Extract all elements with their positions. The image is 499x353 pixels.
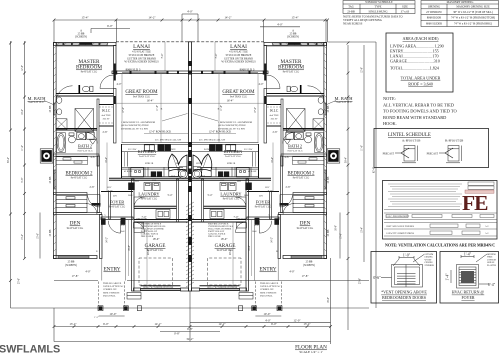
pantry curved wing [168,154,187,172]
svg-text:203 SF: 203 SF [103,118,111,121]
great room left wall [114,89,117,144]
svg-text:SINGLE-HUNG: SINGLE-HUNG [369,10,388,13]
misc small dims [90,54,291,256]
svg-text:11'-0": 11'-0" [21,145,24,151]
kitchen row block labels [65,130,315,288]
svg-text:GARAGE, TAPE &: GARAGE, TAPE & [141,233,159,236]
svg-text:11'-8": 11'-8" [220,105,223,111]
svg-text:W.I.C: W.I.C [270,109,279,113]
svg-text:2'-8": 2'-8" [286,186,291,189]
svg-text:9x6 FLAT CLG: 9x6 FLAT CLG [77,150,93,153]
svg-text:SWFLAMLS: SWFLAMLS [0,344,60,353]
svg-text:25'-6": 25'-6" [18,278,21,284]
svg-text:12'-0" ROW BLOCK: 12'-0" ROW BLOCK [149,130,171,133]
svg-text:2'-8": 2'-8" [273,131,278,134]
svg-text:CEILING: CEILING [425,257,434,259]
svg-text:LAUNDRY: LAUNDRY [138,192,160,197]
svg-text:12'-0": 12'-0" [293,318,301,322]
masonry opening table [421,1,499,27]
slider opening in great room wall [122,71,168,73]
lanai note lines [124,51,256,72]
svg-text:WALL STUD AT ENTIRE: WALL STUD AT ENTIRE [208,227,232,230]
svg-text:WIDE: WIDE [487,257,493,259]
svg-text:BATH 2: BATH 2 [288,144,302,149]
svg-text:GYPSUM BOARD ON ALL: GYPSUM BOARD ON ALL [208,225,234,228]
svg-text:4'-0": 4'-0" [259,83,264,86]
FE cert small boxes right [465,182,494,193]
svg-text:6'-0": 6'-0" [103,322,110,326]
water heater pad outside [40,149,53,163]
hall/den right wall [98,156,100,213]
svg-text:13'-4": 13'-4" [69,322,77,326]
svg-text:AREA (EACH SIDE): AREA (EACH SIDE) [403,36,440,41]
svg-text:W/D: W/D [152,180,157,182]
wic shelves [99,107,114,123]
bedroom2 door arc [88,195,101,208]
svg-text:RANGE: RANGE [204,148,212,151]
svg-text:FOYER: FOYER [461,295,474,300]
dark chunks on master right wall [114,64,116,74]
svg-text:WALL STUD AT ENTIRE: WALL STUD AT ENTIRE [141,227,165,230]
laundry shelf box [156,210,170,219]
svg-text:9x4 FLAT CLG: 9x4 FLAT CLG [297,227,314,230]
svg-text:W/ EXTRA SCREEN DOWELS: W/ EXTRA SCREEN DOWELS [124,61,159,64]
svg-text:KITCHEN: KITCHEN [224,149,242,154]
svg-text:50'-4": 50'-4" [345,157,348,163]
dimension labels bottom [69,312,311,341]
svg-text:0'-4": 0'-4" [488,283,496,287]
right unit (mirror) [188,42,339,311]
svg-text:25'-6": 25'-6" [359,278,362,284]
counter left leg [122,152,128,167]
left exterior wall [54,43,57,259]
svg-text:10'-0": 10'-0" [263,312,271,316]
svg-text:10'-0": 10'-0" [21,109,24,115]
svg-text:12'-8": 12'-8" [361,67,364,73]
svg-text:17'-0": 17'-0" [254,107,257,113]
svg-text:9x4 FLAT CLG: 9x4 FLAT CLG [223,198,240,201]
svg-text:GARAGE........................: GARAGE..........................310 [390,59,440,64]
svg-text:SIZE: SIZE [402,5,408,8]
svg-text:34'-2": 34'-2" [186,337,194,341]
bath2 top wall [56,128,97,130]
kitchen left edge [121,144,123,178]
svg-text:4'-0": 4'-0" [289,271,294,274]
bath2 bottom wall [54,154,100,156]
svg-text:CAPACITY COMPUTATIONS: CAPACITY COMPUTATIONS [386,232,415,235]
svg-text:8068 DOOR: 8068 DOOR [427,17,441,20]
hall pocket door [92,203,101,206]
svg-text:RANGE: RANGE [168,148,176,151]
svg-text:OPENING: OPENING [428,6,440,9]
svg-text:6'-0": 6'-0" [121,224,126,227]
svg-text:16'0 x 7'0 OVERHEAD DOOR: 16'0 x 7'0 OVERHEAD DOOR [207,286,238,289]
svg-text:7'-4": 7'-4" [215,54,218,59]
lanai screen dashed edge [116,41,188,43]
svg-text:W/ RET: W/ RET [425,259,433,261]
svg-text:9x4 FLAT CLG: 9x4 FLAT CLG [81,71,98,74]
svg-text:5'-4": 5'-4" [168,194,173,197]
svg-text:WINDOW SCHEDULE: WINDOW SCHEDULE [365,1,393,4]
svg-text:MASONRY OPENING SIZE: MASONRY OPENING SIZE [456,6,490,9]
garage overhead door lines [141,288,181,290]
svg-text:MASONRY OPENING: MASONRY OPENING [447,1,474,4]
svg-text:WH: WH [176,163,180,165]
svg-text:9x4 TRAY CLG: 9x4 TRAY CLG [133,96,150,99]
svg-text:TAG: TAG [348,5,354,8]
svg-text:23 BB: 23 BB [327,105,330,112]
den bottom wall w/ window [54,256,98,259]
bedroom2 upper closet band [56,157,88,165]
svg-text:GREAT ROOM: GREAT ROOM [125,90,158,95]
svg-text:15'-4": 15'-4" [81,16,89,20]
svg-text:16'0 x 7'0 OVERHEAD DOOR: 16'0 x 7'0 OVERHEAD DOOR [143,286,174,289]
svg-text:W/ EXTRA SCREEN DOWELS: W/ EXTRA SCREEN DOWELS [221,61,256,64]
svg-text:16'-8": 16'-8" [128,245,131,251]
svg-text:13'-4": 13'-4" [361,227,364,233]
svg-text:7'-4": 7'-4" [161,54,164,59]
svg-text:4'-0": 4'-0" [265,318,272,322]
svg-text:(SCREEN): (SCREEN) [303,264,315,267]
foyer left wall [109,192,111,220]
svg-text:1'-0": 1'-0" [403,253,411,257]
svg-text:15'-4": 15'-4" [291,16,299,20]
svg-text:23 BB: 23 BB [49,105,52,112]
svg-text:10'-4": 10'-4" [271,157,274,163]
svg-text:2'-8": 2'-8" [90,186,95,189]
svg-text:16'-8": 16'-8" [335,225,338,231]
svg-text:TOTAL AREA UNDER: TOTAL AREA UNDER [401,76,441,81]
foyer top wall [101,191,133,193]
svg-text:FE: FE [462,191,488,215]
svg-text:4'-0": 4'-0" [85,271,90,274]
svg-text:74" W x 83-1/2" H (FROM BOTTOM: 74" W x 83-1/2" H (FROM BOTTOM) [451,17,495,20]
svg-text:STUBBED: STUBBED [425,265,435,267]
svg-text:50'-4": 50'-4" [7,157,10,163]
foyer bottom entry-door wall [101,217,133,220]
svg-text:LANAI: LANAI [133,44,150,50]
svg-text:FIRE CAULK: FIRE CAULK [208,235,221,238]
FE cert middle row [384,210,497,237]
svg-text:20'-0": 20'-0" [229,249,232,255]
svg-text:23 BB: 23 BB [49,176,52,183]
svg-text:0'-6": 0'-6" [373,276,381,280]
kitchen lower counter [122,167,184,177]
svg-text:ENTRY: ENTRY [259,267,276,273]
svg-text:4'-0": 4'-0" [117,83,122,86]
svg-text:12'-0" ROW BLOCK: 12'-0" ROW BLOCK [209,130,231,133]
svg-text:12'-8": 12'-8" [21,65,24,71]
svg-text:LANAI: LANAI [230,44,247,50]
garage bottom wall [134,288,141,291]
A screened note top left [75,30,299,39]
svg-text:1'-4": 1'-4" [446,273,450,281]
svg-text:9x4 FLAT CLG: 9x4 FLAT CLG [336,101,352,104]
svg-text:7'-0": 7'-0" [142,216,147,219]
svg-text:DEN: DEN [300,221,311,227]
svg-text:6'-8": 6'-8" [187,327,194,331]
entry door arc [108,221,120,233]
svg-text:9x4 FLAT CLG: 9x4 FLAT CLG [141,198,158,201]
svg-text:KITCHEN: KITCHEN [138,149,156,154]
svg-text:18'-0": 18'-0" [153,238,160,241]
great room leader note [121,121,253,130]
svg-text:U.C. DW: U.C. DW [128,149,137,151]
svg-text:9x4 FLAT CLG: 9x4 FLAT CLG [225,155,241,158]
svg-text:PRECAST: PRECAST [383,152,395,155]
dark wall chunk at top [80,42,93,45]
svg-text:FOYER: FOYER [110,200,124,205]
svg-text:(SCREEN): (SCREEN) [65,264,77,267]
kitchen/laundry wall [109,177,188,179]
svg-text:BOND BEAM WITH STANDARD: BOND BEAM WITH STANDARD [383,115,446,120]
svg-text:BATH 2: BATH 2 [78,144,92,149]
svg-text:14'-2": 14'-2" [148,16,156,20]
window schedule table [343,1,415,14]
svg-text:GARAGE, TAPE &: GARAGE, TAPE & [208,233,226,236]
master right wall [114,46,117,75]
svg-text:PRECAST: PRECAST [427,152,439,155]
svg-text:LIN: LIN [259,196,263,198]
garage fire note [141,223,234,241]
laundry tub circle [178,169,187,178]
svg-text:13'-4": 13'-4" [303,322,311,326]
svg-text:42 BASE: 42 BASE [248,170,257,173]
entry door posts [101,218,106,225]
svg-text:PARTY WALL OF: PARTY WALL OF [141,230,158,233]
svg-text:25 BB: 25 BB [49,229,52,236]
svg-text:LINTEL SCHEDULE: LINTEL SCHEDULE [388,133,431,138]
svg-text:1'-4": 1'-4" [464,252,472,256]
svg-text:8068 SLD 3: 8068 SLD 3 [126,68,141,72]
svg-text:23-BB: 23-BB [347,10,355,13]
bedroom2 bottom wall [54,193,88,195]
svg-text:WH: WH [196,163,200,165]
svg-text:17'-0": 17'-0" [122,107,125,113]
svg-text:6'-0": 6'-0" [271,322,278,326]
svg-text:CALC. PER BDM NOTE: CALC. PER BDM NOTE [386,215,410,218]
svg-text:11'-0": 11'-0" [361,145,364,151]
svg-text:9x6 FLAT CLG: 9x6 FLAT CLG [287,150,303,153]
dimension ticks [9,19,349,328]
svg-text:2'-8": 2'-8" [103,131,108,134]
m.bath leader arrow [44,101,55,106]
svg-text:0'-8": 0'-8" [174,332,181,336]
svg-text:6'-0": 6'-0" [107,24,114,28]
svg-text:DIAGONAL: DIAGONAL [103,294,116,297]
den door arc [86,204,97,215]
svg-text:GREAT ROOM: GREAT ROOM [222,90,255,95]
svg-text:HVAC RETURN @: HVAC RETURN @ [452,290,485,295]
master bottom closet wall [56,93,114,95]
svg-text:4'-6": 4'-6" [285,156,290,159]
laundry bottom wall [134,205,177,207]
svg-text:8068 SLD 3: 8068 SLD 3 [240,68,255,72]
svg-text:23 BB: 23 BB [327,176,330,183]
svg-text:NEAR EGRESS: NEAR EGRESS [343,22,363,26]
room labels both units [27,44,353,273]
top exterior wall (master) [54,43,117,46]
svg-text:W.I.C: W.I.C [102,109,111,113]
svg-text:15'-0": 15'-0" [37,233,40,239]
svg-text:4'-0": 4'-0" [187,10,194,14]
wic vertical wall [97,99,99,166]
FE certificate box [383,181,498,240]
svg-text:A: 8F16/1T/1B: A: 8F16/1T/1B [402,139,420,143]
entry step boxes [127,293,141,300]
svg-text:15'-0": 15'-0" [340,233,343,239]
garage entry step [134,223,144,229]
svg-text:ALL VERTICAL REBAR TO BE TIED: ALL VERTICAL REBAR TO BE TIED [383,102,454,107]
svg-text:9x4 TRAY CLG: 9x4 TRAY CLG [230,96,247,99]
great room width dim [116,102,188,104]
dimension labels top [81,10,299,29]
svg-text:TO FOOTING DOWELS AND TIED TO: TO FOOTING DOWELS AND TIED TO [383,109,457,114]
center wall diagonal hatch (fire wall) [186,202,194,287]
laundry door arc [134,197,145,208]
laundry right wall [177,179,179,222]
svg-text:16'-4": 16'-4" [227,100,234,103]
den right wall [100,215,103,259]
svg-text:CEILING: CEILING [425,262,434,264]
svg-text:NOTE: VENTILATION CALCULATIONS: NOTE: VENTILATION CALCULATIONS ARE PER M… [385,242,495,247]
vent opening detail box [371,252,437,304]
svg-text:9x4 FLAT CLG: 9x4 FLAT CLG [67,227,84,230]
svg-text:5'-4": 5'-4" [208,194,213,197]
great room top slider wall [112,71,188,74]
svg-text:3'-0": 3'-0" [268,190,273,193]
svg-text:WH: WH [135,181,139,183]
svg-text:14'-2": 14'-2" [218,322,226,326]
svg-text:ENTRY: ENTRY [103,267,120,273]
svg-text:20'-0": 20'-0" [147,249,150,255]
svg-text:OPENING: OPENING [487,254,497,256]
master windows in top wall [57,43,108,46]
svg-text:4'-0": 4'-0" [277,22,284,26]
svg-text:14'-2": 14'-2" [271,237,274,243]
garage dashed attic access [139,258,173,285]
svg-text:GYPSUM: GYPSUM [487,259,496,261]
svg-text:23 WINDOW: 23 WINDOW [426,11,442,14]
svg-text:FOYER: FOYER [256,200,270,205]
m.bath door arc [56,86,73,103]
svg-text:16'-4": 16'-4" [147,100,154,103]
svg-text:9'-8": 9'-8" [21,178,24,183]
center dim line below garages [189,291,191,342]
laundry appliances [128,183,135,191]
svg-text:1'-2": 1'-2" [94,316,99,319]
svg-text:GYPSUM BOARD ON ALL: GYPSUM BOARD ON ALL [141,225,167,228]
svg-text:9x4 FLAT CLG: 9x4 FLAT CLG [71,177,88,180]
garage service door arc [134,222,145,233]
svg-text:14'-2": 14'-2" [154,322,162,326]
svg-text:HOOK.: HOOK. [383,121,397,126]
svg-text:COST AND VALUE FIGURES: COST AND VALUE FIGURES [386,225,415,228]
svg-text:7'-0": 7'-0" [234,216,239,219]
svg-text:WH: WH [237,181,241,183]
shower hatched [75,109,94,132]
foyer/laundry/garage vertical wall [132,179,135,291]
svg-text:BEDROOM/DEN DOORS: BEDROOM/DEN DOORS [382,295,426,300]
svg-text:A.C.: A.C. [485,232,490,235]
svg-text:3'-0": 3'-0" [108,190,113,193]
entry walkway edges [101,225,103,281]
svg-text:PARTY WALL OF: PARTY WALL OF [208,230,225,233]
svg-text:PLASTER: PLASTER [487,264,497,267]
area box [386,33,453,92]
svg-text:W/D: W/D [220,180,225,182]
svg-text:(SCREEN): (SCREEN) [75,36,87,39]
svg-text:18'-0": 18'-0" [221,238,228,241]
rotated dim labels sides [7,65,376,303]
porch dashed trellis lines [98,282,100,306]
svg-text:16'-8": 16'-8" [327,297,330,303]
svg-text:38" W x 63-1/2" H (TOP OF SILL: 38" W x 63-1/2" H (TOP OF SILL) [453,11,493,14]
bath2 door arc [86,133,97,144]
svg-text:DIAGONAL: DIAGONAL [260,294,273,297]
svg-text:GRILLE: GRILLE [487,262,495,264]
svg-text:LIN: LIN [113,196,117,198]
bath2 fixtures [57,132,97,152]
svg-text:6'-0": 6'-0" [255,224,260,227]
master door arc [100,75,114,89]
svg-text:4'-6": 4'-6" [91,156,96,159]
rebar note [383,96,457,126]
lintel schedule box [374,129,489,168]
svg-text:203 SF: 203 SF [271,118,279,121]
svg-text:U.C. DW SPACE ALL GFI: U.C. DW SPACE ALL GFI [199,139,226,142]
svg-text:13'-4": 13'-4" [21,234,24,240]
m.bath fixtures [56,86,93,129]
hatch marks on exterior walls [54,43,109,252]
svg-text:11'-8": 11'-8" [156,105,159,111]
svg-text:9x4 FLAT CLG: 9x4 FLAT CLG [139,155,155,158]
svg-text:SINK 2B: SINK 2B [227,163,236,165]
window tags along left wall [49,105,330,236]
hvac return detail box [440,252,499,304]
svg-text:NOTE:: NOTE: [383,96,396,101]
svg-text:9x4 FLAT CLG: 9x4 FLAT CLG [109,206,126,209]
fridge [169,168,179,177]
garage top wall [134,219,188,221]
svg-text:37 x 63: 37 x 63 [401,10,410,13]
trellis note at entry [103,282,281,297]
dimension lines frame [11,14,377,344]
svg-text:A.C.: A.C. [485,225,490,228]
svg-text:8068 SLIDER: 8068 SLIDER [426,23,442,26]
svg-text:74" W x 83-1/2" H (FROM BRG): 74" W x 83-1/2" H (FROM BRG) [454,23,492,26]
svg-text:GYPSUM: GYPSUM [425,254,434,256]
svg-text:9x4 FLAT CLG: 9x4 FLAT CLG [293,177,310,180]
svg-text:OVERHEAD. W/ V.I. PIN: OVERHEAD. W/ V.I. PIN [121,127,148,130]
svg-text:*VENT OPENING ABOVE: *VENT OPENING ABOVE [381,290,427,295]
kitchen upper counter [122,143,189,152]
svg-text:17'-8": 17'-8" [302,275,309,278]
left unit geometry [40,42,191,311]
svg-text:16'-8": 16'-8" [248,245,251,251]
svg-text:TYPE: TYPE [375,5,382,8]
wic top/bottom [99,104,114,106]
svg-text:9x4 FLAT CLG: 9x4 FLAT CLG [28,101,44,104]
wc dividing wall [79,85,81,94]
svg-text:B: 8F16/1T/2B: B: 8F16/1T/2B [445,139,463,143]
svg-text:14'-2": 14'-2" [106,237,109,243]
svg-text:U.C. DW: U.C. DW [244,149,253,151]
den top wall [54,213,102,215]
svg-text:9x4 FLAT CLG: 9x4 FLAT CLG [255,206,272,209]
svg-text:25 BB: 25 BB [327,229,330,236]
interior vertical dim lines [107,42,188,288]
